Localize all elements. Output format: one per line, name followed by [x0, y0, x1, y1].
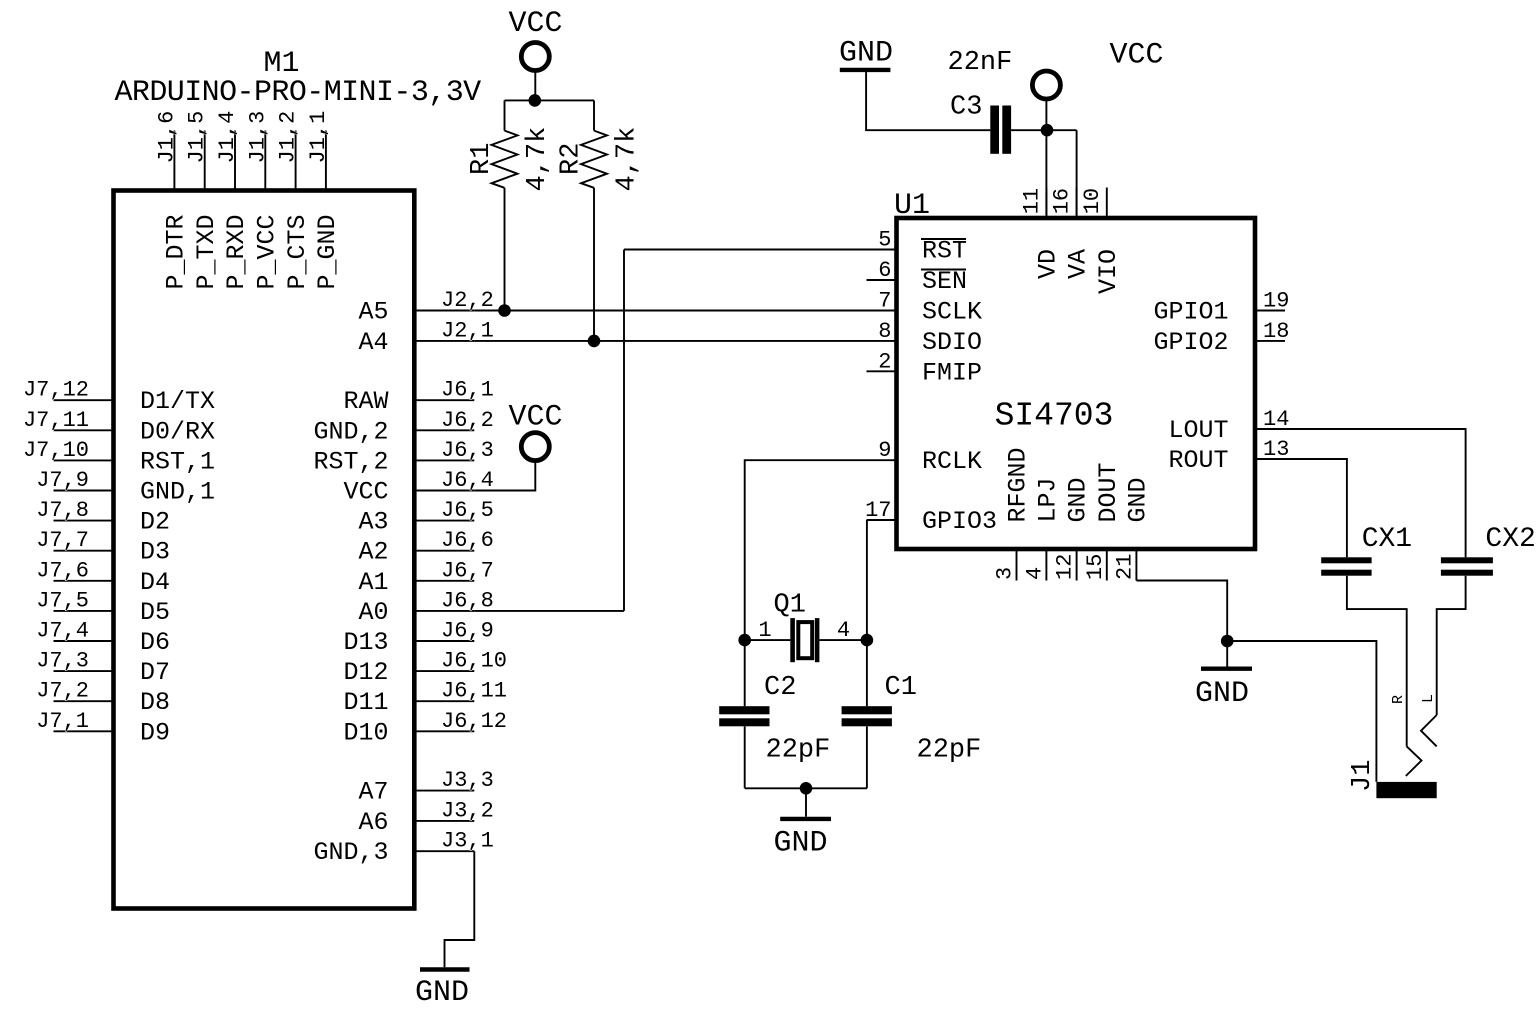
U1 pin 12 GND (bottom) — [1076, 549, 1078, 581]
svg-text:D9: D9 — [140, 718, 170, 747]
svg-text:J7,5: J7,5 — [36, 588, 89, 613]
jack R contact spring — [1406, 746, 1422, 776]
svg-text:J1,6: J1,6 — [154, 111, 179, 164]
wire C2 bottom to C1 bottom — [745, 787, 867, 789]
svg-text:SI4703: SI4703 — [995, 398, 1114, 435]
svg-text:J3,3: J3,3 — [441, 768, 494, 793]
junction R2 / A4 net — [588, 335, 601, 348]
svg-text:RCLK: RCLK — [922, 447, 982, 476]
svg-text:10: 10 — [1080, 188, 1105, 214]
svg-text:J6,6: J6,6 — [441, 528, 494, 553]
svg-text:Q1: Q1 — [774, 591, 806, 621]
svg-text:J7,10: J7,10 — [23, 438, 89, 463]
svg-text:A2: A2 — [358, 538, 388, 567]
svg-text:8: 8 — [878, 319, 891, 344]
wire M1 GND,3 J3,1 to ground — [445, 851, 475, 967]
svg-text:15: 15 — [1083, 554, 1108, 580]
M1 pin J7,10 RST,1 (left) — [54, 459, 114, 461]
svg-text:P_CTS: P_CTS — [283, 215, 312, 290]
svg-text:J1,2: J1,2 — [276, 111, 301, 164]
svg-text:P_TXD: P_TXD — [192, 215, 221, 290]
svg-text:J6,3: J6,3 — [441, 438, 494, 463]
M1 pin J6,9 D13 (right) — [414, 640, 474, 642]
U1 pin 7 SCLK (left) — [867, 310, 897, 312]
M1 pin J1,1 P_GND (top) — [325, 131, 327, 191]
wire VCC to M1 J6,4 — [474, 461, 535, 491]
svg-text:16: 16 — [1050, 188, 1075, 214]
ground GND (below M1) — [420, 967, 470, 971]
svg-text:J7,4: J7,4 — [36, 619, 89, 644]
M1 pin J6,6 A2 (right) — [414, 550, 474, 552]
svg-text:VCC: VCC — [508, 401, 562, 435]
svg-text:SEN: SEN — [922, 267, 967, 296]
U1 pin 15 DOUT (bottom) — [1106, 549, 1108, 581]
svg-text:LPJ: LPJ — [1033, 477, 1062, 522]
M1 pin J7,3 D7 (left) — [54, 670, 114, 672]
svg-text:R2: R2 — [557, 143, 587, 175]
svg-text:P_GND: P_GND — [313, 215, 342, 290]
svg-text:RFGND: RFGND — [1004, 447, 1033, 522]
capacitor C2 22pF — [744, 640, 746, 706]
svg-text:J1: J1 — [1348, 760, 1378, 792]
svg-text:GND: GND — [1064, 477, 1093, 522]
M1 pin J3,2 A6 (right) — [414, 820, 474, 822]
svg-text:SCLK: SCLK — [922, 298, 982, 327]
svg-text:C1: C1 — [885, 673, 917, 703]
M1 pin J7,8 D2 (left) — [54, 520, 114, 522]
wire C3 to VCC junction and U1 VD/VA — [1011, 129, 1077, 131]
svg-text:1: 1 — [758, 618, 771, 643]
power symbol GND (top left of U1) — [840, 68, 891, 72]
resistor R2 4,7k — [593, 100, 595, 130]
wire U1 RCLK pin9 to Q1 pin1 — [745, 460, 867, 640]
svg-text:RST: RST — [922, 237, 967, 266]
svg-text:ARDUINO-PRO-MINI-3,3V: ARDUINO-PRO-MINI-3,3V — [115, 76, 482, 110]
connector J1 audio jack body — [1376, 782, 1436, 798]
junction crystal GND net — [800, 782, 813, 795]
svg-text:GND,2: GND,2 — [313, 417, 388, 446]
svg-text:C2: C2 — [764, 673, 796, 703]
svg-text:FMIP: FMIP — [922, 358, 982, 387]
svg-text:J1,1: J1,1 — [306, 111, 331, 164]
svg-text:GND,1: GND,1 — [140, 478, 215, 507]
M1 pin J1,4 P_RXD (top) — [234, 131, 236, 191]
svg-text:R: R — [1390, 695, 1407, 704]
U1 pin 21 GND (bottom) — [1135, 549, 1137, 581]
M1 pin J6,1 RAW (right) — [414, 399, 474, 401]
svg-text:9: 9 — [878, 438, 891, 463]
U1 pin 14 LOUT (right) — [1255, 428, 1285, 430]
svg-text:GPIO3: GPIO3 — [922, 507, 997, 536]
svg-text:7: 7 — [878, 289, 891, 314]
svg-text:D13: D13 — [343, 628, 388, 657]
svg-text:4,7k: 4,7k — [613, 127, 643, 192]
svg-text:SDIO: SDIO — [922, 328, 982, 357]
M1 pin J7,12 D1/TX (left) — [54, 399, 114, 401]
U1 pin 13 ROUT (right) — [1255, 458, 1285, 460]
svg-text:CX1: CX1 — [1362, 524, 1412, 555]
svg-text:D12: D12 — [343, 658, 388, 687]
svg-text:D2: D2 — [140, 508, 170, 537]
svg-text:4: 4 — [1022, 567, 1047, 580]
svg-text:J6,4: J6,4 — [441, 468, 494, 493]
svg-text:GND: GND — [773, 827, 827, 861]
U1 pin 16 VA (top) — [1076, 188, 1078, 219]
M1 pin J3,1 GND,3 (right) — [414, 850, 474, 852]
svg-text:A3: A3 — [358, 508, 388, 537]
junction Q1 pin4 / C1 — [861, 634, 874, 647]
svg-text:D1/TX: D1/TX — [140, 387, 215, 416]
wire CX1 to jack R contact — [1347, 576, 1407, 747]
wire U1 ROUT pin13 to CX1 — [1285, 459, 1347, 557]
junction GND net / jack sleeve — [1221, 635, 1234, 648]
svg-text:J6,10: J6,10 — [441, 649, 507, 674]
svg-text:J7,1: J7,1 — [36, 709, 89, 734]
svg-text:2: 2 — [878, 349, 891, 374]
M1 pin J6,11 D11 (right) — [414, 700, 474, 702]
wire U1 GPIO3 pin17 to Q1 pin4 — [866, 520, 868, 640]
svg-text:A4: A4 — [358, 328, 388, 357]
U1 pin 4 LPJ (bottom) — [1045, 549, 1047, 581]
svg-text:D6: D6 — [140, 628, 170, 657]
svg-text:J3,1: J3,1 — [441, 829, 494, 854]
M1 pin J7,2 D8 (left) — [54, 700, 114, 702]
junction R1 / A5 net — [498, 304, 511, 317]
svg-text:A7: A7 — [358, 778, 388, 807]
wire VCC circle to junction — [534, 71, 536, 101]
U1 pin 10 VIO (top) — [1106, 188, 1108, 219]
M1 pin J6,5 A3 (right) — [414, 520, 474, 522]
svg-text:D10: D10 — [343, 718, 388, 747]
M1 pin J7,11 D0/RX (left) — [54, 429, 114, 431]
wire net A4 : M1 J2,1 to U1 SDIO pin8 — [474, 340, 866, 342]
svg-text:J7,8: J7,8 — [36, 498, 89, 523]
overline of SEN — [921, 269, 966, 271]
svg-text:P_DTR: P_DTR — [162, 215, 191, 290]
power symbol VCC (feeds M1 VCC pin J6,4) — [521, 433, 549, 461]
U1 pin 19 GPIO1 (right) — [1255, 310, 1285, 312]
svg-text:A6: A6 — [358, 808, 388, 837]
svg-text:J6,1: J6,1 — [441, 378, 494, 403]
svg-text:GND: GND — [839, 37, 893, 71]
M1 pin J6,2 GND,2 (right) — [414, 429, 474, 431]
M1 pin J7,5 D5 (left) — [54, 610, 114, 612]
wire U1 pin21 GND to ground junction — [1136, 581, 1227, 642]
svg-text:VCC: VCC — [1109, 39, 1163, 73]
svg-text:19: 19 — [1263, 289, 1289, 314]
svg-text:ROUT: ROUT — [1168, 446, 1228, 475]
svg-text:5: 5 — [878, 228, 891, 253]
svg-text:VD: VD — [1033, 249, 1062, 279]
wire net A5 : M1 J2,2 to U1 SCLK pin7 — [474, 310, 866, 312]
svg-text:C3: C3 — [950, 93, 982, 123]
M1 pin J6,4 VCC (right) — [414, 490, 474, 492]
svg-text:12: 12 — [1053, 554, 1078, 580]
IC M1 ARDUINO-PRO-MINI-3.3V body — [114, 191, 415, 909]
svg-text:J1,4: J1,4 — [215, 111, 240, 164]
wire U1 LOUT pin14 to CX2 — [1285, 429, 1466, 557]
svg-text:18: 18 — [1263, 319, 1289, 344]
M1 pin J6,8 A0 (right) — [414, 610, 474, 612]
U1 pin 3 RFGND (bottom) — [1016, 549, 1018, 581]
svg-text:J7,6: J7,6 — [36, 558, 89, 583]
svg-text:J7,7: J7,7 — [36, 528, 89, 553]
M1 pin J7,7 D3 (left) — [54, 550, 114, 552]
M1 pin J6,3 RST,2 (right) — [414, 459, 474, 461]
svg-text:P_VCC: P_VCC — [253, 215, 282, 290]
capacitor C1 22pF — [866, 640, 868, 706]
svg-text:DOUT: DOUT — [1094, 462, 1123, 522]
svg-text:GPIO2: GPIO2 — [1153, 328, 1228, 357]
svg-text:J7,9: J7,9 — [36, 468, 89, 493]
M1 pin J7,6 D4 (left) — [54, 580, 114, 582]
svg-text:J6,5: J6,5 — [441, 498, 494, 523]
svg-text:J2,1: J2,1 — [441, 318, 494, 343]
svg-text:VCC: VCC — [508, 7, 562, 41]
wire net A0 : M1 J6,8 to U1 RST pin5 — [474, 610, 624, 612]
U1 pin 8 SDIO (left) — [867, 340, 897, 342]
svg-text:GND: GND — [1195, 677, 1249, 711]
svg-text:GND: GND — [1123, 477, 1152, 522]
wire R1 top to R2 top — [505, 99, 595, 101]
U1 pin 9 RCLK (left) — [867, 459, 897, 461]
svg-text:CX2: CX2 — [1485, 524, 1535, 555]
svg-text:VCC: VCC — [343, 478, 388, 507]
svg-text:J1,5: J1,5 — [185, 111, 210, 164]
IC U1 SI4703 body — [897, 218, 1256, 549]
svg-text:VA: VA — [1064, 249, 1093, 279]
svg-text:J7,11: J7,11 — [23, 408, 89, 433]
power symbol VCC (top of U1) — [1032, 71, 1060, 99]
svg-text:RST,1: RST,1 — [140, 447, 215, 476]
svg-text:4: 4 — [837, 618, 850, 643]
M1 pin J1,6 P_DTR (top) — [173, 131, 175, 191]
svg-text:L: L — [1420, 694, 1437, 703]
svg-text:VIO: VIO — [1094, 249, 1123, 294]
M1 pin J6,7 A1 (right) — [414, 580, 474, 582]
U1 pin 18 GPIO2 (right) — [1255, 340, 1285, 342]
svg-text:D4: D4 — [140, 568, 170, 597]
svg-text:A1: A1 — [358, 568, 388, 597]
M1 pin J6,10 D12 (right) — [414, 670, 474, 672]
svg-text:P_RXD: P_RXD — [222, 215, 251, 290]
U1 pin 5 RST (left) — [867, 249, 897, 251]
svg-text:22pF: 22pF — [766, 736, 831, 766]
svg-text:RST,2: RST,2 — [313, 447, 388, 476]
svg-text:D11: D11 — [343, 688, 388, 717]
M1 pin J3,3 A7 (right) — [414, 790, 474, 792]
svg-text:11: 11 — [1019, 188, 1044, 214]
svg-text:J2,2: J2,2 — [441, 288, 494, 313]
crystal Q1 — [745, 639, 791, 641]
svg-text:J7,12: J7,12 — [23, 378, 89, 403]
capacitor C3 22nF — [990, 106, 999, 154]
svg-text:A0: A0 — [358, 598, 388, 627]
junction VCC/R1/R2 — [529, 94, 542, 107]
U1 pin 11 VD (top) — [1045, 188, 1047, 219]
jack L contact spring — [1421, 715, 1437, 746]
U1 pin 17 GPIO3 (left) — [867, 519, 897, 521]
M1 pin J1,5 P_TXD (top) — [204, 131, 206, 191]
capacitor CX2 — [1441, 557, 1493, 563]
svg-text:J6,12: J6,12 — [441, 709, 507, 734]
svg-text:J7,2: J7,2 — [36, 679, 89, 704]
svg-text:22nF: 22nF — [948, 48, 1013, 78]
svg-text:J6,9: J6,9 — [441, 619, 494, 644]
svg-text:D5: D5 — [140, 598, 170, 627]
M1 pin J7,9 GND,1 (left) — [54, 490, 114, 492]
M1 pin J2,1 A4 (right) — [414, 340, 474, 342]
svg-text:GND: GND — [415, 976, 469, 1010]
svg-text:J6,11: J6,11 — [441, 679, 507, 704]
svg-text:22pF: 22pF — [917, 736, 982, 766]
svg-text:D0/RX: D0/RX — [140, 417, 215, 446]
junction VCC / C3 / VD — [1041, 124, 1054, 137]
svg-text:U1: U1 — [894, 189, 930, 223]
M1 pin J1,2 P_CTS (top) — [295, 131, 297, 191]
svg-text:J6,8: J6,8 — [441, 588, 494, 613]
wire CX2 to jack L contact — [1437, 576, 1466, 715]
svg-text:J3,2: J3,2 — [441, 798, 494, 823]
svg-text:17: 17 — [865, 498, 891, 523]
svg-text:21: 21 — [1112, 554, 1137, 580]
svg-text:D7: D7 — [140, 658, 170, 687]
junction Q1 pin1 / C2 — [738, 634, 751, 647]
svg-text:GPIO1: GPIO1 — [1153, 298, 1228, 327]
svg-text:3: 3 — [993, 567, 1018, 580]
U1 pin 2 FMIP (left) — [867, 370, 897, 372]
svg-text:RAW: RAW — [343, 387, 388, 416]
ground GND (below crystal) — [805, 788, 807, 816]
M1 pin J7,4 D6 (left) — [54, 640, 114, 642]
wire GND to C3 — [866, 72, 990, 130]
svg-text:J6,2: J6,2 — [441, 408, 494, 433]
M1 pin J1,3 P_VCC (top) — [264, 131, 266, 191]
overline of RST — [921, 238, 966, 240]
svg-text:R1: R1 — [467, 143, 497, 175]
svg-text:J7,3: J7,3 — [36, 649, 89, 674]
M1 pin J2,2 A5 (right) — [414, 310, 474, 312]
svg-text:4,7k: 4,7k — [523, 127, 553, 192]
wire ground junction to jack J1 sleeve — [1227, 641, 1376, 782]
svg-text:A5: A5 — [358, 298, 388, 327]
svg-text:D3: D3 — [140, 538, 170, 567]
svg-text:6: 6 — [878, 258, 891, 283]
svg-text:GND,3: GND,3 — [313, 838, 388, 867]
svg-text:J6,7: J6,7 — [441, 558, 494, 583]
power symbol VCC (top, feeds R1/R2) — [521, 43, 549, 71]
U1 pin 6 SEN (left) — [867, 279, 897, 281]
ground GND (below U1) — [1226, 641, 1228, 667]
M1 pin J7,1 D9 (left) — [54, 730, 114, 732]
capacitor CX1 — [1321, 557, 1371, 563]
svg-text:D8: D8 — [140, 688, 170, 717]
resistor R1 4,7k — [504, 100, 506, 130]
svg-text:LOUT: LOUT — [1168, 416, 1228, 445]
M1 pin J6,12 D10 (right) — [414, 730, 474, 732]
svg-text:J1,3: J1,3 — [245, 111, 270, 164]
